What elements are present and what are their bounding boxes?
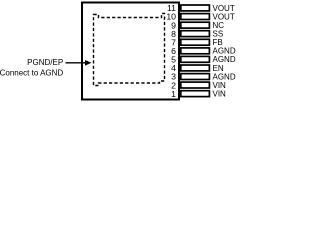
pin 10 lead [181,14,210,20]
arrow line from annotation to EP [66,62,87,64]
pin 4 lead [181,65,210,71]
svg-text:PGND/EP: PGND/EP [27,58,63,67]
pin 9 lead [181,22,210,28]
svg-text:Connect to AGND: Connect to AGND [0,68,63,77]
exposed pad PGND/EP (dashed outline) [94,14,165,86]
pin 3 lead [181,74,210,80]
pin 7 lead [181,39,210,45]
pin 5 lead [181,56,210,62]
pin 2 lead [181,82,210,88]
pin 1 lead [181,91,210,97]
svg-text:VIN: VIN [213,90,227,99]
pin 6 lead [181,48,210,54]
IC body U1 [82,3,179,100]
svg-text:1: 1 [171,89,176,99]
pin 11 lead [181,5,210,11]
pin 8 lead [181,31,210,37]
arrowhead [85,60,92,66]
